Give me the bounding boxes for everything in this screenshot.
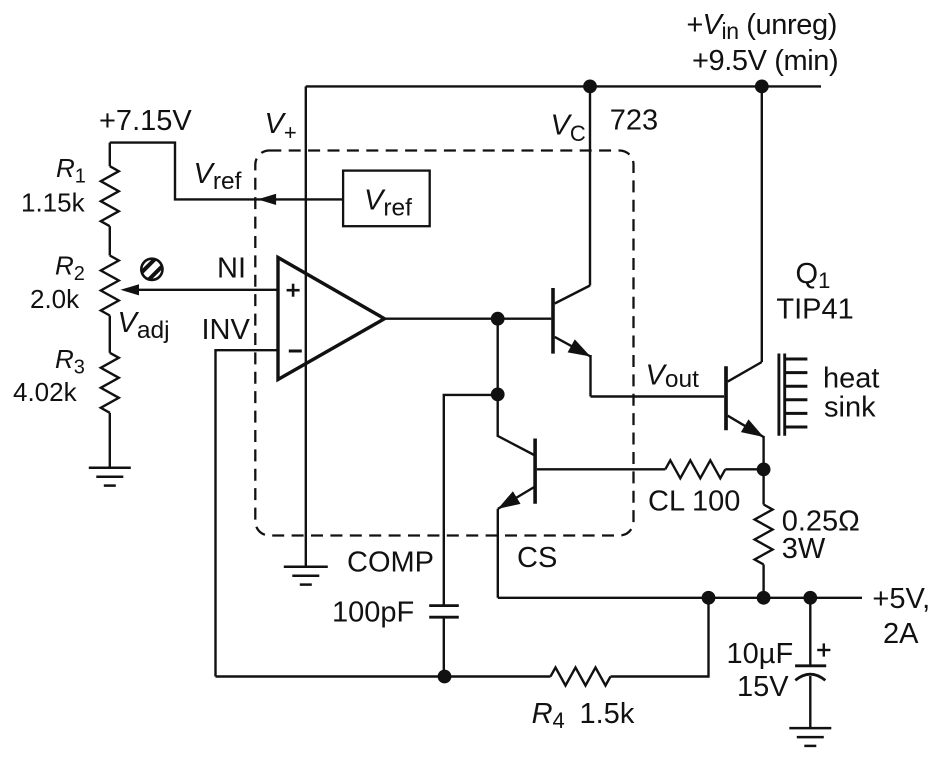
node op-amp output junction — [491, 312, 505, 326]
wire NI from R2 wiper to op-amp — [133, 289, 278, 291]
wire R3 bottom lead — [109, 413, 111, 468]
svg-text:2A: 2A — [883, 618, 919, 650]
svg-text:+7.15V: +7.15V — [99, 105, 192, 137]
resistor R1 — [101, 166, 119, 226]
ground (bottom of R3) — [89, 467, 131, 470]
svg-text:1.5k: 1.5k — [580, 698, 635, 730]
svg-text:Vadj: Vadj — [118, 307, 170, 344]
node rail / R4 junction — [702, 591, 716, 605]
svg-text:CS: CS — [517, 542, 557, 574]
svg-text:R3: R3 — [55, 344, 85, 379]
wire COMP branch — [444, 395, 498, 606]
svg-text:15V: 15V — [737, 671, 789, 703]
svg-text:3W: 3W — [782, 533, 826, 565]
wire CL resistor to Q1 emitter node — [725, 468, 763, 470]
svg-text:COMP: COMP — [347, 546, 434, 578]
wire Vc riser — [589, 86, 591, 285]
svg-text:4.02k: 4.02k — [13, 377, 78, 407]
wire top +Vin rail — [306, 85, 821, 87]
svg-text:+Vin (unreg): +Vin (unreg) — [686, 9, 837, 44]
capacitor 100pF — [429, 604, 459, 607]
svg-text:+5V,: +5V, — [872, 583, 930, 615]
heat sink symbol — [779, 354, 808, 436]
transistor 723 output driver — [498, 286, 591, 397]
resistor R2 (potentiometer) — [101, 256, 119, 316]
node lower junction (COMP / CS collector) — [491, 388, 505, 402]
svg-text:heat: heat — [823, 363, 879, 395]
svg-text:Vref: Vref — [364, 185, 412, 222]
node bottom junction — [438, 670, 452, 684]
wire Q1 emitter node to 0.25ohm — [762, 469, 764, 504]
op-amp U1 (723 error amplifier) — [278, 258, 385, 380]
svg-text:CL 100: CL 100 — [648, 486, 740, 518]
wire R1-R2 — [109, 226, 111, 255]
arrow R2 wiper — [121, 284, 140, 295]
wire R1 top lead — [109, 143, 111, 167]
wire R2-R3 — [109, 316, 111, 353]
svg-text:NI: NI — [217, 253, 246, 285]
arrow Vref into regulator — [258, 194, 277, 205]
svg-text:VC: VC — [551, 110, 586, 147]
wire +7.15V from R1 top to Vref box — [110, 143, 343, 200]
wire feedback bottom run — [216, 675, 551, 677]
capacitor 10uF 15V electrolytic — [795, 664, 826, 667]
wire rail to 10uF — [809, 598, 811, 666]
wire Q1 collector riser — [761, 86, 763, 362]
svg-text:2.0k: 2.0k — [30, 284, 80, 314]
node junction top rail / Vc — [583, 80, 597, 94]
block Vref reference — [343, 171, 430, 227]
svg-text:sink: sink — [824, 392, 876, 424]
wire output down to lower junction — [497, 319, 499, 395]
wire 0.25ohm to +5V rail — [762, 565, 764, 598]
node rail / 10uF junction — [803, 591, 817, 605]
svg-text:V+: V+ — [265, 108, 297, 145]
svg-text:INV: INV — [202, 314, 251, 346]
svg-text:723: 723 — [610, 105, 658, 137]
resistor CL 100 — [665, 460, 725, 478]
transistor Q1 TIP41 — [726, 362, 764, 469]
resistor 0.25 ohm 3W — [755, 505, 773, 565]
wire op-amp output — [385, 318, 498, 320]
svg-text:100pF: 100pF — [332, 597, 414, 629]
svg-text:Vref: Vref — [194, 158, 242, 195]
svg-text:R1: R1 — [56, 153, 86, 188]
svg-text:R2: R2 — [55, 251, 85, 286]
wire Vout to Q1 base — [591, 395, 725, 397]
node rail / 0.25ohm junction — [757, 591, 771, 605]
node junction top rail / Q1 collector — [755, 80, 769, 94]
svg-text:R4: R4 — [532, 698, 565, 733]
wire R4 to +5V rail — [611, 598, 709, 677]
svg-text:10µF: 10µF — [727, 638, 794, 670]
svg-text:Vout: Vout — [646, 360, 700, 394]
ground (10uF) — [789, 727, 831, 730]
svg-text:+9.5V (min): +9.5V (min) — [692, 45, 838, 77]
wire 10uF to ground — [809, 676, 811, 728]
resistor R3 — [101, 353, 119, 413]
svg-text:TIP41: TIP41 — [776, 293, 853, 325]
wire INV input loop — [216, 350, 279, 676]
svg-text:1.15k: 1.15k — [21, 188, 86, 218]
svg-text:Q1: Q1 — [796, 258, 831, 293]
node R2 wiper screw symbol — [139, 256, 164, 283]
ground (V- pin below op-amp) — [284, 566, 328, 569]
wire +5V output rail — [498, 597, 862, 599]
resistor R4 1.5k — [551, 668, 611, 686]
transistor 723 current-limit (CS) — [498, 394, 535, 597]
723 IC dashed boundary — [255, 151, 633, 536]
wire 100pF to bottom node — [443, 617, 445, 676]
wire CS base to CL resistor — [537, 468, 665, 470]
wire V+ riser through op-amp to ground — [305, 86, 307, 566]
node Q1 emitter / CL junction — [757, 463, 771, 477]
